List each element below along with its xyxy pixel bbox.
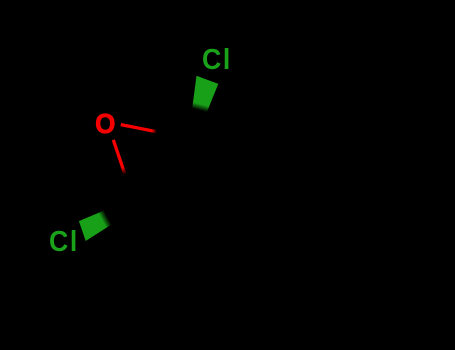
wedge C2-Cl bottom [79,210,112,241]
wire O-C1 bond [121,125,157,132]
wire O-C2 bond [113,140,125,175]
svg-text:Cl: Cl [49,225,79,257]
svg-text:Cl: Cl [202,43,232,75]
svg-text:O: O [95,108,115,139]
wedge C1-Cl top [192,76,218,113]
